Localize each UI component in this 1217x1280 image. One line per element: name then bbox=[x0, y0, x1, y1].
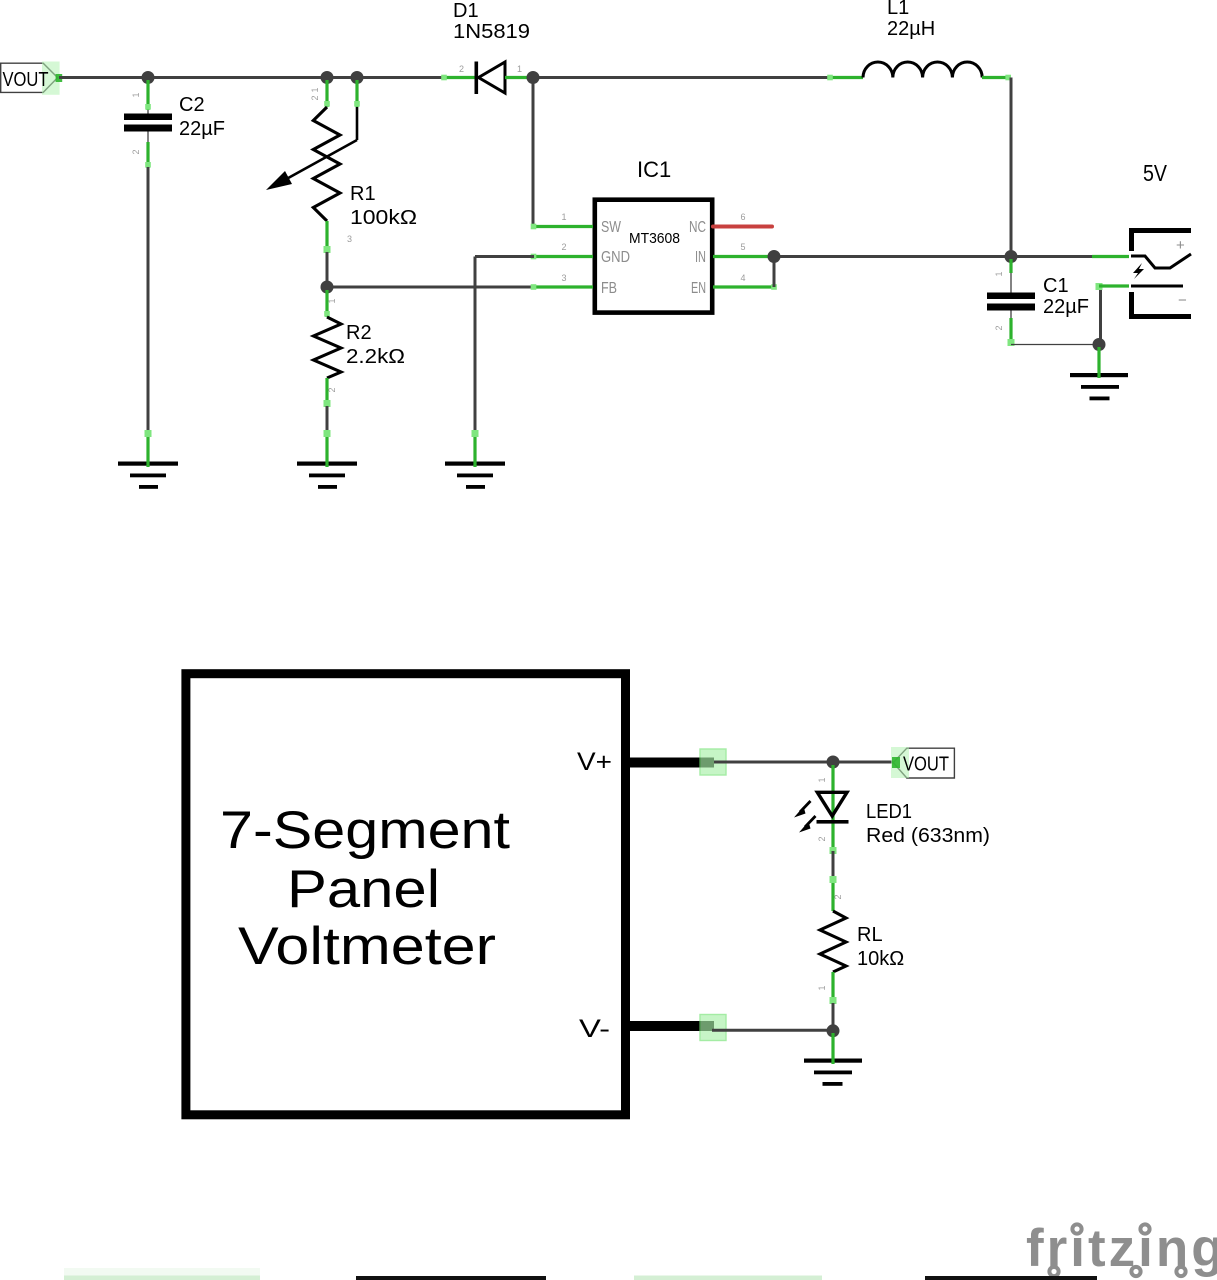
svg-text:C1: C1 bbox=[1043, 275, 1069, 297]
wire L1 down to IN node bbox=[1010, 78, 1013, 253]
wire V+ to LED node bbox=[714, 761, 833, 764]
junction IN node bbox=[1005, 250, 1018, 263]
svg-text:fritzing: fritzing bbox=[1026, 1219, 1217, 1278]
svg-text:R1: R1 bbox=[350, 183, 376, 205]
wire jack minus down bbox=[1099, 286, 1102, 341]
power jack J1 bbox=[1092, 160, 1191, 319]
svg-text:5: 5 bbox=[740, 242, 745, 252]
svg-text:VOUT: VOUT bbox=[3, 69, 49, 91]
plus pin bbox=[1092, 255, 1129, 258]
svg-text:6: 6 bbox=[740, 212, 745, 222]
svg-text:C2: C2 bbox=[179, 94, 205, 116]
svg-text:1: 1 bbox=[327, 298, 337, 303]
svg-text:2: 2 bbox=[131, 149, 141, 154]
ground (jack) bbox=[1070, 373, 1128, 400]
svg-text:1: 1 bbox=[131, 92, 141, 97]
wire LED to RL bbox=[832, 851, 835, 880]
capacitor C1 bbox=[987, 259, 1089, 346]
ground pin (GND net) bbox=[473, 433, 476, 467]
net label VOUT (bottom) bbox=[891, 747, 954, 778]
junction FB node bbox=[321, 281, 334, 294]
pad V- bbox=[700, 1015, 726, 1041]
ground (R2) bbox=[297, 462, 357, 489]
svg-text:7-Segment: 7-Segment bbox=[220, 801, 510, 860]
resistor R1 (potentiometer) bbox=[266, 80, 417, 253]
svg-text:GND: GND bbox=[601, 249, 630, 266]
junction LED node bbox=[827, 756, 840, 769]
svg-text:3: 3 bbox=[561, 273, 566, 283]
svg-text:5V: 5V bbox=[1143, 160, 1168, 186]
svg-text:VOUT: VOUT bbox=[903, 754, 949, 776]
svg-text:1: 1 bbox=[310, 87, 320, 92]
junction ground node bbox=[1093, 338, 1106, 351]
wire GND left segment bbox=[475, 255, 534, 258]
svg-text:1: 1 bbox=[517, 64, 522, 74]
voltmeter text bbox=[220, 801, 510, 976]
component edge (cut off, green pad) bbox=[64, 1268, 260, 1280]
svg-text:Red (633nm): Red (633nm) bbox=[866, 825, 990, 847]
wire D1 to L1 bbox=[533, 76, 830, 79]
diode D1 bbox=[441, 0, 533, 94]
wire VOUT to C2 node bbox=[59, 76, 148, 79]
svg-text:2: 2 bbox=[994, 325, 1004, 330]
svg-text:V-: V- bbox=[579, 1015, 610, 1043]
pin 4 EN bbox=[713, 285, 774, 288]
pin 1 SW bbox=[534, 225, 594, 228]
svg-text:2: 2 bbox=[833, 894, 843, 899]
wire IN node to jack bbox=[774, 255, 1092, 258]
svg-text:2: 2 bbox=[561, 242, 566, 252]
LED1 bbox=[794, 765, 990, 854]
wire R1 to FB node bbox=[326, 252, 329, 287]
junction EN/IN bbox=[768, 250, 781, 263]
component edge (cut off, black outline) bbox=[356, 1276, 546, 1280]
svg-text:FB: FB bbox=[601, 280, 617, 297]
pin 6 NC bbox=[713, 225, 772, 229]
svg-text:R2: R2 bbox=[346, 322, 372, 344]
junction V-/RL bbox=[827, 1024, 840, 1037]
svg-text:2: 2 bbox=[817, 836, 827, 841]
wire FB node to IC bbox=[327, 286, 534, 289]
wire RL to ground node bbox=[832, 1003, 835, 1029]
junction node R1 wiper bbox=[351, 71, 364, 84]
svg-text:L1: L1 bbox=[887, 0, 909, 19]
component edge (cut off, green pad) bbox=[634, 1276, 822, 1280]
resistor RL bbox=[817, 876, 904, 1004]
wire C2 to ground bbox=[147, 167, 150, 435]
ground (C2) bbox=[118, 462, 178, 489]
junction node VOUT/C2 bbox=[142, 71, 155, 84]
wire GND down bbox=[474, 257, 477, 436]
svg-text:D1: D1 bbox=[453, 0, 479, 22]
capacitor C2 bbox=[124, 80, 225, 168]
IC1 MT3608 bbox=[531, 157, 777, 313]
svg-text:2: 2 bbox=[310, 95, 320, 100]
junction D1/SW bbox=[527, 71, 540, 84]
wire LED node to VOUT label bbox=[833, 761, 893, 764]
svg-text:MT3608: MT3608 bbox=[629, 230, 680, 247]
svg-text:LED1: LED1 bbox=[866, 801, 912, 823]
ground pin (jack) bbox=[1097, 347, 1100, 378]
fritzing logo bbox=[1026, 1219, 1217, 1278]
wire R1 node to wiper node bbox=[327, 76, 357, 79]
svg-text:SW: SW bbox=[601, 219, 622, 236]
svg-text:V+: V+ bbox=[577, 748, 612, 776]
ground pin (LED net) bbox=[831, 1033, 834, 1064]
wire wiper node to D1 bbox=[357, 76, 444, 79]
wire EN to IN tie bbox=[773, 258, 776, 287]
inductor L1 bbox=[827, 0, 1011, 80]
wire SW vertical bbox=[532, 78, 535, 227]
svg-text:+: + bbox=[1176, 237, 1185, 254]
svg-text:2: 2 bbox=[459, 64, 464, 74]
svg-text:22µF: 22µF bbox=[179, 118, 225, 140]
svg-text:Panel: Panel bbox=[287, 860, 440, 919]
svg-text:1: 1 bbox=[561, 212, 566, 222]
junction node R1 pin1 bbox=[321, 71, 334, 84]
svg-text:EN: EN bbox=[691, 280, 706, 297]
ground pin (C2) bbox=[146, 433, 149, 467]
svg-text:1: 1 bbox=[817, 985, 827, 990]
ground pin (R2) bbox=[325, 433, 328, 467]
svg-text:1: 1 bbox=[994, 271, 1004, 276]
net label VOUT (top left) bbox=[1, 62, 62, 95]
voltmeter module box bbox=[186, 674, 626, 1115]
svg-text:2.2kΩ: 2.2kΩ bbox=[346, 346, 405, 368]
svg-text:10kΩ: 10kΩ bbox=[857, 948, 904, 970]
svg-text:2: 2 bbox=[327, 387, 337, 392]
svg-text:22µH: 22µH bbox=[887, 18, 935, 40]
component edge (cut off, black outline) bbox=[925, 1276, 1097, 1280]
svg-text:22µF: 22µF bbox=[1043, 296, 1089, 318]
svg-text:RL: RL bbox=[857, 924, 883, 946]
minus pin bbox=[1099, 284, 1129, 287]
svg-text:IC1: IC1 bbox=[637, 157, 671, 182]
pin 5 IN bbox=[713, 255, 774, 258]
wire C2 node to R1 node bbox=[148, 76, 327, 79]
svg-text:100kΩ: 100kΩ bbox=[350, 207, 417, 229]
svg-text:IN: IN bbox=[695, 249, 706, 266]
pin 3 FB bbox=[534, 285, 594, 288]
pin 2 GND bbox=[534, 255, 594, 258]
svg-text:NC: NC bbox=[689, 219, 706, 236]
svg-text:1: 1 bbox=[817, 777, 827, 782]
svg-text:−: − bbox=[1178, 292, 1187, 309]
svg-text:1N5819: 1N5819 bbox=[453, 21, 530, 43]
pad V+ bbox=[700, 749, 726, 775]
wire V- to ground node bbox=[712, 1029, 833, 1032]
svg-text:4: 4 bbox=[740, 273, 745, 283]
ground (LED net) bbox=[804, 1059, 862, 1086]
wire C1 to ground node bbox=[1011, 344, 1099, 346]
ground (GND net) bbox=[445, 462, 505, 489]
svg-text:Voltmeter: Voltmeter bbox=[238, 917, 496, 976]
wire R2 to ground bbox=[326, 406, 329, 435]
svg-text:3: 3 bbox=[347, 234, 352, 244]
resistor R2 bbox=[314, 290, 406, 407]
